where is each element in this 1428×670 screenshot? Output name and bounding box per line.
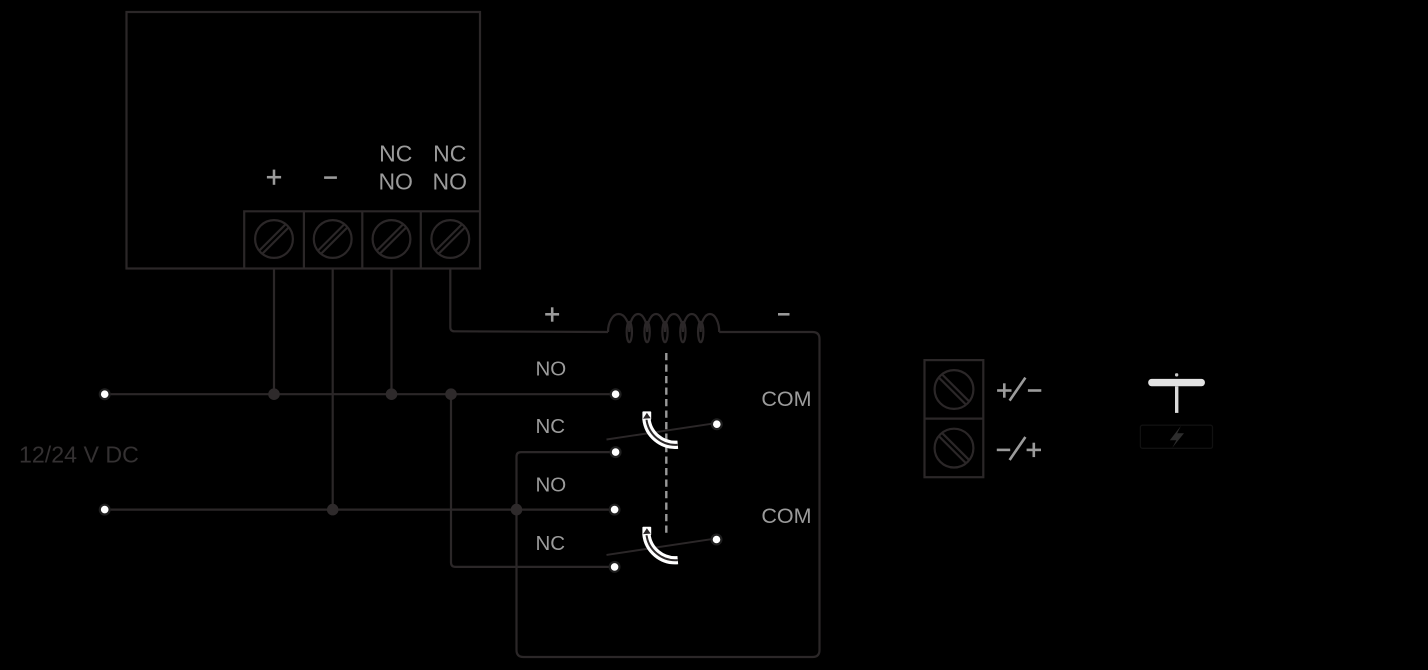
relay 1 switch arm [607, 423, 719, 440]
wire negative rail [105, 509, 611, 511]
screw 2 (-) [314, 220, 352, 258]
wire NC1 to negative vertical [517, 452, 613, 510]
relay coil L1 [608, 314, 719, 342]
svg-text:NO: NO [536, 358, 567, 381]
node power rail 1 end [100, 389, 110, 399]
terminal strip dividers [304, 211, 421, 268]
svg-text:NO: NO [433, 169, 468, 195]
wire terminal2 down [332, 269, 334, 510]
junction dot t3/rail [386, 388, 398, 400]
node NC2 [610, 562, 620, 572]
wire terminal4 to relay coil + [450, 269, 608, 333]
svg-text:12/24 V DC: 12/24 V DC [19, 441, 139, 467]
power supply bolt [1170, 426, 1184, 448]
screw 4 (NC/NO) [431, 220, 469, 258]
junction dot t1/rail [268, 388, 280, 400]
junction dot t2/rail2 [327, 504, 339, 516]
wire positive rail [105, 393, 612, 395]
svg-text:NO: NO [536, 473, 567, 496]
svg-text:NC: NC [536, 415, 566, 438]
relay armature dashed link [665, 353, 667, 534]
node COM1 [712, 419, 722, 429]
svg-text:NO: NO [378, 169, 413, 195]
label +/- [997, 378, 1041, 401]
junction dot NC1-vertical/rail2 [511, 504, 523, 516]
external screw 2 [935, 429, 974, 468]
wire relay box outline / coil return [517, 332, 820, 657]
node NC1 [611, 447, 621, 457]
svg-text:COM: COM [761, 504, 811, 528]
relay 2 motion arrow [642, 527, 677, 560]
external terminal block frame [925, 360, 984, 477]
screw 1 (+) [255, 220, 293, 258]
external terminal block divider [925, 418, 984, 420]
svg-text:NC: NC [433, 141, 466, 167]
relay 2 switch arm [607, 538, 719, 555]
svg-text:COM: COM [761, 387, 811, 411]
device outline box [127, 12, 481, 269]
wire rail branch to NC2 [451, 394, 611, 567]
wire terminal3 down [390, 269, 392, 395]
terminal strip frame [244, 211, 480, 268]
power supply body [1140, 425, 1212, 448]
svg-text:NC: NC [536, 532, 566, 555]
power connector pin dot [1175, 373, 1178, 376]
screw 3 (NC/NO) [373, 220, 411, 258]
label + (relay coil) [545, 307, 559, 321]
external screw 1 [935, 370, 974, 409]
label + (device) [267, 170, 281, 185]
relay 1 motion arrow [642, 411, 677, 444]
label -/+ [997, 437, 1041, 460]
wire terminal1 down [273, 269, 275, 395]
power connector stem [1175, 386, 1178, 413]
node NO1 [611, 389, 621, 399]
node COM2 [712, 535, 722, 545]
node NO2 [610, 505, 620, 515]
junction dot branch/rail [445, 388, 457, 400]
label - (device) [324, 176, 337, 179]
svg-text:NC: NC [379, 141, 412, 167]
label - (relay coil) [778, 313, 790, 316]
node power rail 2 end [100, 505, 110, 515]
power connector bar [1148, 379, 1205, 386]
